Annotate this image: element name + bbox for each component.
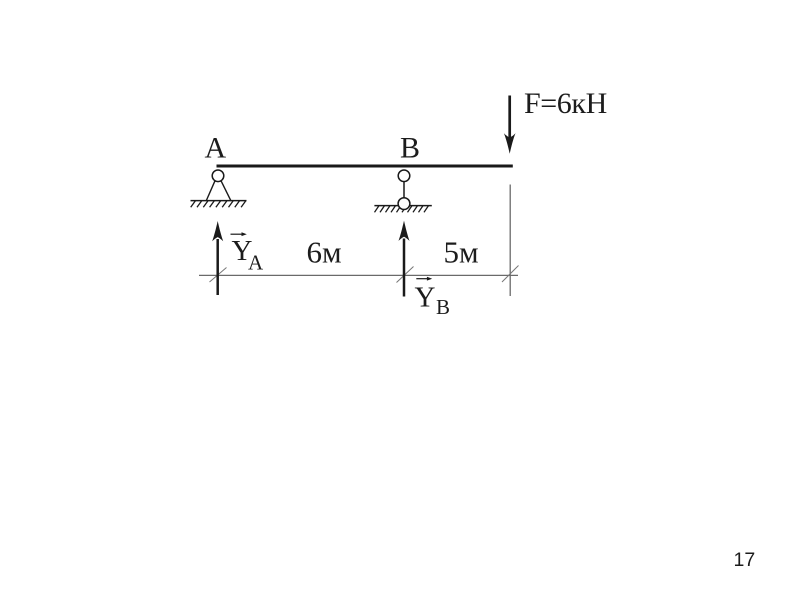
svg-text:Y: Y bbox=[415, 281, 436, 313]
beam bbox=[217, 164, 513, 167]
svg-text:F=6кН: F=6кН bbox=[524, 87, 607, 120]
tick at A bbox=[210, 268, 227, 283]
support A ground line bbox=[191, 200, 247, 202]
svg-text:6м: 6м bbox=[307, 235, 342, 270]
support B upper circle bbox=[398, 170, 410, 182]
svg-text:A: A bbox=[205, 132, 227, 165]
tick at B bbox=[397, 267, 414, 283]
label YA vector bar bbox=[231, 233, 244, 235]
svg-text:A: A bbox=[248, 251, 264, 275]
support B ground line bbox=[374, 205, 431, 207]
force F arrow shaft bbox=[508, 96, 511, 140]
tick at right end bbox=[502, 266, 519, 283]
svg-text:5м: 5м bbox=[444, 235, 479, 270]
support A pin circle bbox=[212, 170, 224, 182]
svg-text:B: B bbox=[400, 132, 420, 165]
support B roller circle bbox=[398, 198, 410, 210]
reaction YA arrow shaft bbox=[216, 239, 219, 295]
support B link bbox=[403, 182, 405, 199]
support A hatching bbox=[191, 201, 246, 208]
support B hatching bbox=[375, 206, 429, 213]
reaction YB arrow shaft bbox=[403, 239, 406, 297]
label YB vector bar bbox=[416, 278, 428, 280]
reaction YA arrowhead bbox=[212, 221, 223, 241]
svg-text:17: 17 bbox=[734, 549, 756, 571]
svg-text:B: B bbox=[436, 295, 450, 319]
support A triangle legs bbox=[206, 180, 215, 200]
reaction YB arrowhead bbox=[399, 221, 410, 241]
extension line at F bbox=[509, 185, 511, 297]
dimension line bbox=[199, 274, 518, 276]
force F arrowhead bbox=[504, 133, 516, 154]
